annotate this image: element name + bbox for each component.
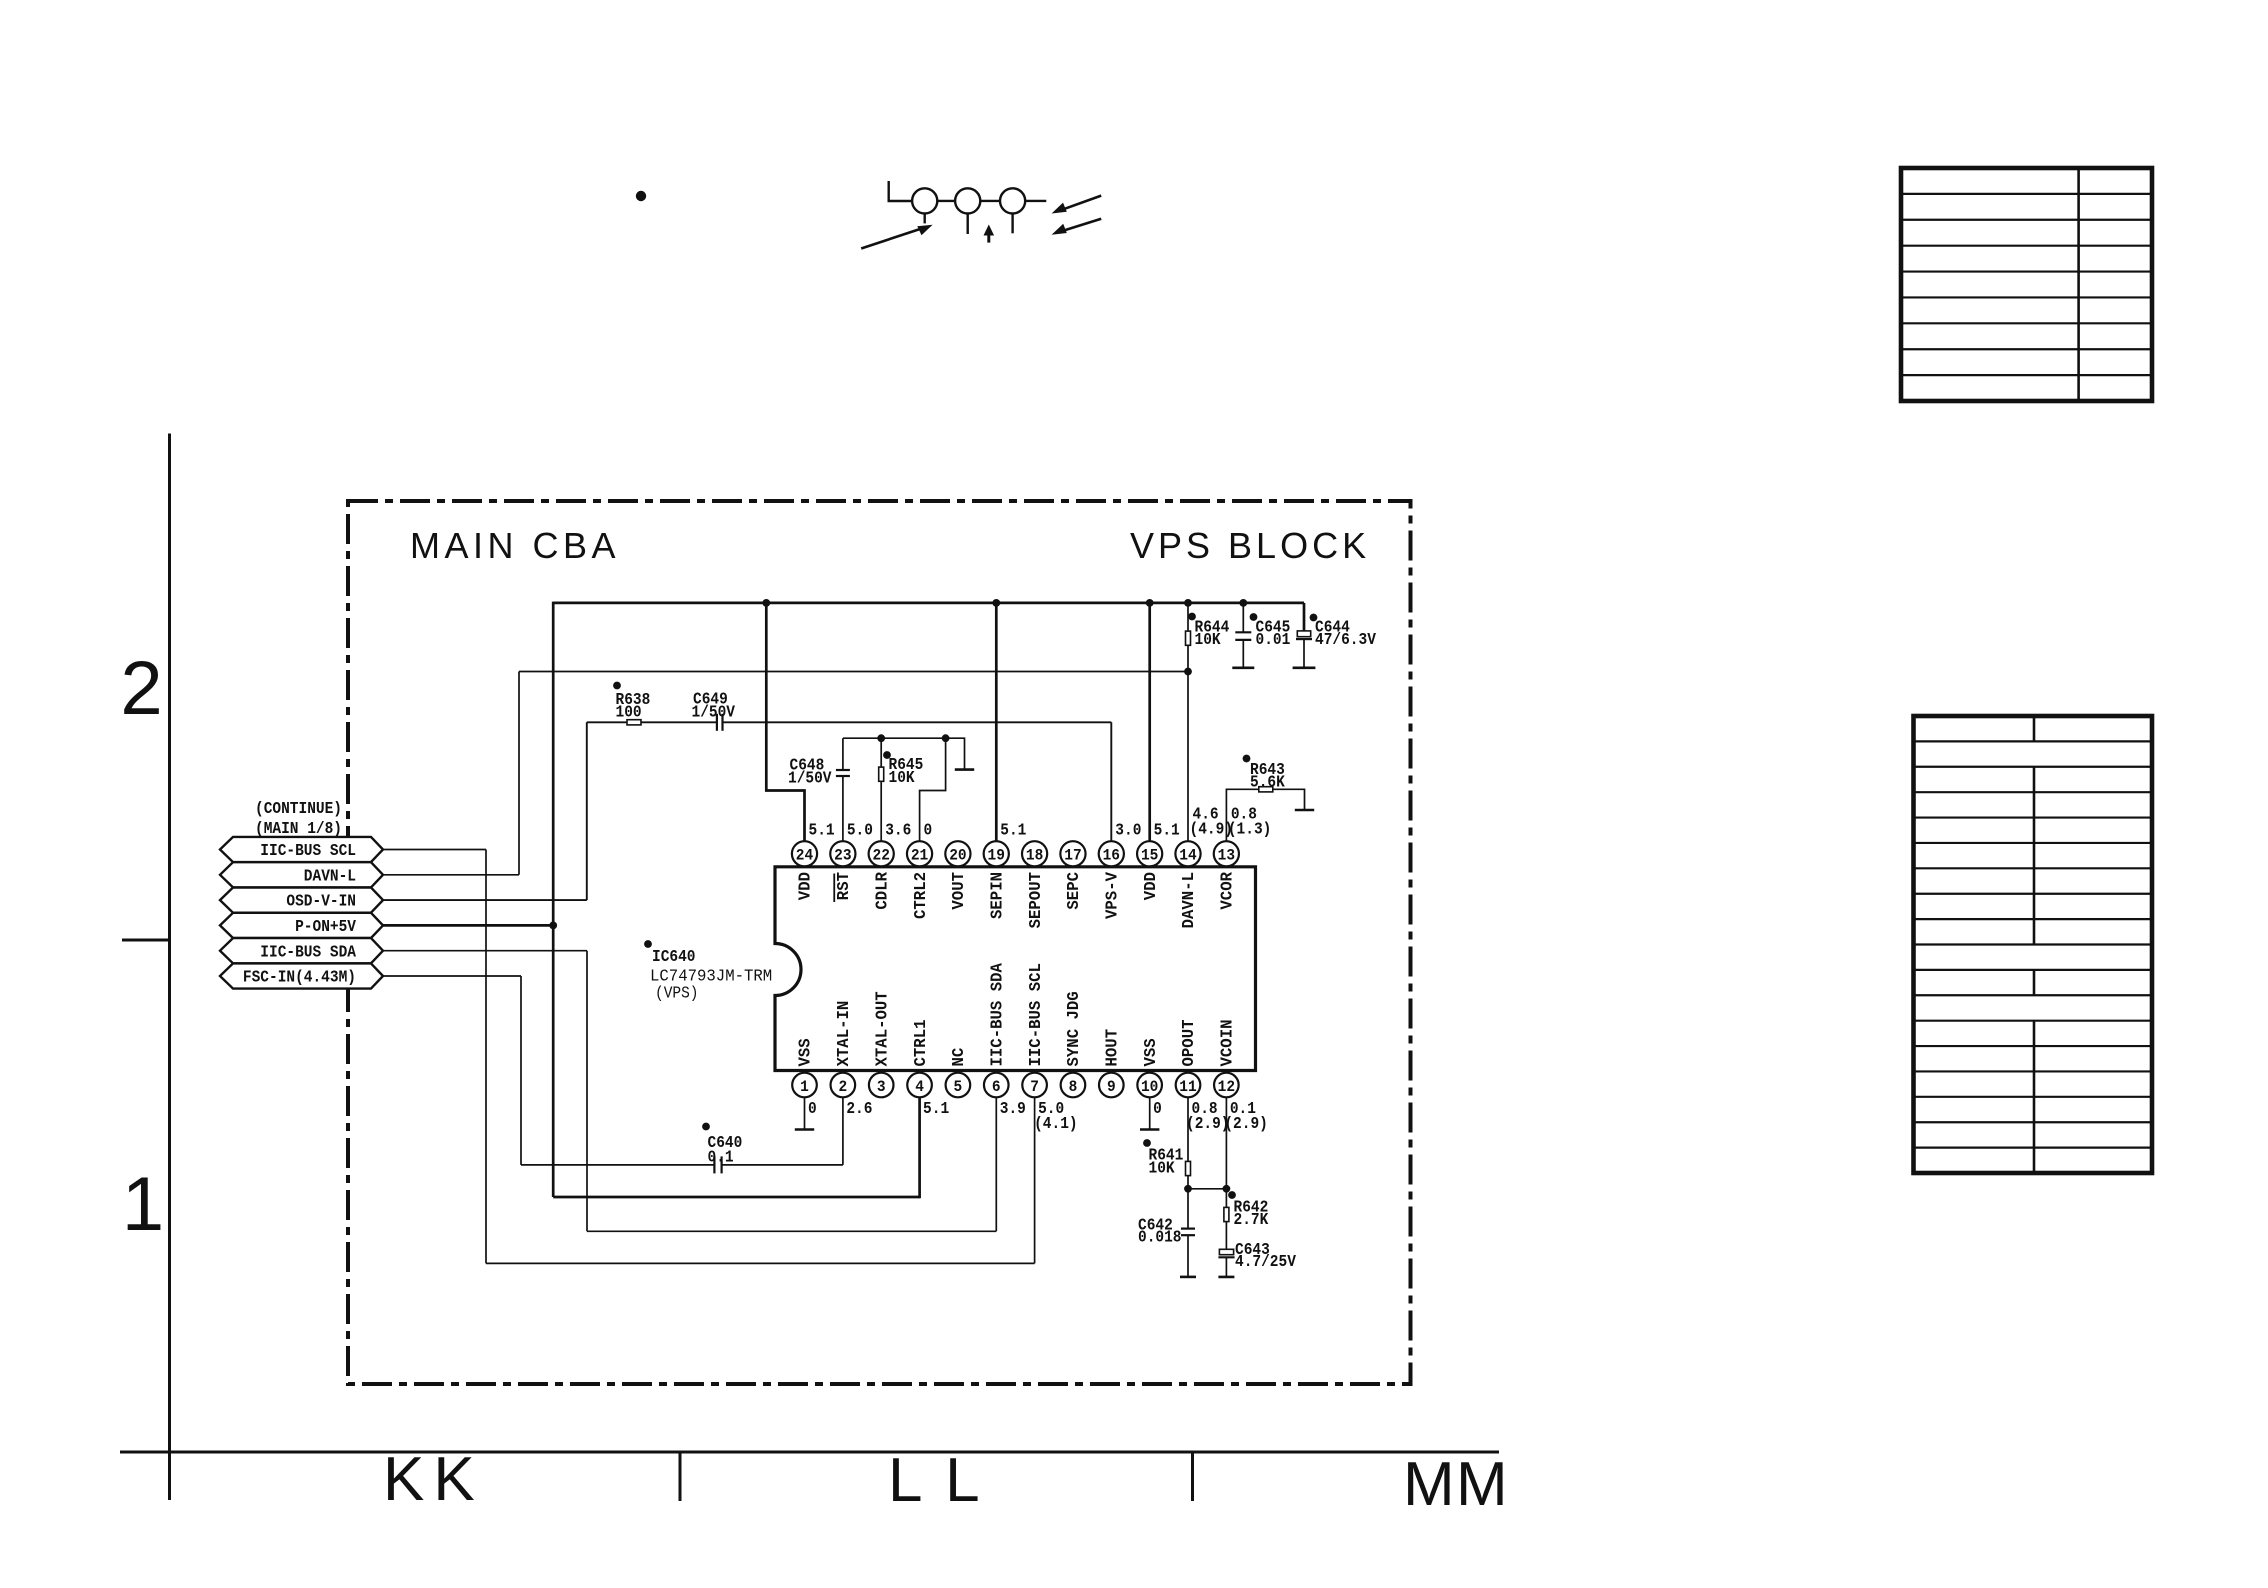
wire C649 to pin 16 corner (723, 721, 1112, 723)
svg-text:KK: KK (383, 1445, 484, 1514)
wire pin 7 vertical (1034, 1085, 1036, 1263)
marker dot R645 (883, 751, 891, 759)
ground bar pin 10 (1140, 1128, 1159, 1131)
wire C644 bottom (1303, 639, 1305, 668)
svg-text:6: 6 (992, 1078, 1001, 1096)
mini diagram circle 1 (912, 188, 937, 213)
wire IIC-BUS SDA flag to vertical (381, 950, 587, 952)
svg-text:5.1: 5.1 (1154, 822, 1180, 840)
svg-text:23: 23 (834, 847, 851, 865)
wire C645 top (1242, 603, 1244, 632)
wire VDD top bus (553, 602, 1304, 605)
junction bus/pin24 branch (762, 599, 770, 607)
svg-text:1/50V: 1/50V (692, 704, 736, 722)
ground bar right of R645 node line (955, 768, 974, 771)
wire IIC-BUS SCL horizontal to pin 7 (486, 1262, 1035, 1264)
svg-text:0.1: 0.1 (708, 1149, 734, 1167)
wire pin 4 vertical (918, 1085, 921, 1198)
svg-text:11: 11 (1179, 1078, 1196, 1096)
svg-text:4: 4 (915, 1078, 924, 1096)
ground bar below C642 (1180, 1276, 1196, 1279)
wire P-ON+5V vertical (552, 602, 555, 1197)
wire FSC-IN to C640 (521, 1164, 714, 1166)
junction C648 line / pin21 branch (942, 734, 950, 742)
svg-text:VPS-V: VPS-V (1104, 872, 1122, 919)
pin 12 (1225, 1071, 1227, 1086)
svg-text:0.01: 0.01 (1256, 631, 1291, 649)
pin 7 (1034, 1071, 1036, 1086)
svg-text:SYNC JDG: SYNC JDG (1065, 991, 1083, 1066)
svg-text:IIC-BUS SDA: IIC-BUS SDA (260, 943, 356, 961)
svg-text:CTRL2: CTRL2 (912, 872, 930, 919)
junction C648 line / R645 (877, 734, 885, 742)
marker dot R644 (1188, 613, 1196, 621)
pin 17 (1072, 854, 1074, 867)
stub below circle 3 (1011, 214, 1013, 233)
svg-text:VPS BLOCK: VPS BLOCK (1130, 525, 1370, 566)
wire FSC-IN vertical down (520, 976, 522, 1165)
wire node to pin 21 jog (920, 738, 946, 844)
svg-text:10K: 10K (1149, 1160, 1175, 1178)
svg-text:VOUT: VOUT (950, 872, 968, 910)
svg-text:CDLR: CDLR (873, 872, 891, 910)
signal flag P-ON+5V (220, 913, 383, 938)
junction pin12/R642 (1223, 1185, 1231, 1193)
wire pin 11 to R641 (1187, 1085, 1189, 1161)
sheet left border line (168, 434, 171, 1501)
pin 22 (880, 854, 882, 867)
wire IIC-BUS SDA vertical down (586, 951, 588, 1232)
pin 10 (1149, 1071, 1151, 1086)
svg-text:IIC-BUS SDA: IIC-BUS SDA (988, 963, 1006, 1067)
svg-text:(4.9): (4.9) (1190, 821, 1234, 839)
overline on RST (833, 874, 835, 903)
capacitor C643 (electrolytic) (1219, 1249, 1233, 1254)
signal flag DAVN-L (220, 862, 383, 887)
svg-text:VDD: VDD (797, 872, 815, 900)
wire node line C648 to ground corner (843, 738, 965, 769)
svg-text:VSS: VSS (797, 1038, 815, 1066)
pin 20 (957, 854, 959, 867)
pin 15 (1149, 854, 1151, 867)
wire bus to pin 19 SEPIN (995, 603, 998, 844)
svg-text:DAVN-L: DAVN-L (304, 867, 356, 885)
wire junction to C642 (1187, 1189, 1189, 1229)
svg-text:1: 1 (800, 1078, 809, 1096)
svg-text:DAVN-L: DAVN-L (1180, 872, 1198, 928)
resistor R643 (1259, 787, 1273, 792)
svg-text:VDD: VDD (1142, 872, 1160, 900)
pin 21 (919, 854, 921, 867)
bullet marker (636, 191, 646, 201)
junction bus/R644 (1184, 599, 1192, 607)
svg-text:5.0: 5.0 (847, 822, 873, 840)
svg-text:HOUT: HOUT (1104, 1029, 1122, 1067)
svg-text:OSD-V-IN: OSD-V-IN (286, 893, 356, 911)
op IC640 body (775, 867, 1256, 1071)
pin 16 (1110, 854, 1112, 867)
wire pin 10 to ground (1149, 1085, 1151, 1130)
pin 9 (1110, 1071, 1112, 1086)
ground bar pin 1 (795, 1128, 814, 1131)
wire pin 16 vertical (1110, 722, 1112, 844)
ground bar below C644 (1293, 666, 1316, 669)
resistor R645 (879, 767, 884, 781)
svg-text:1: 1 (122, 1162, 164, 1247)
marker dot R641 (1143, 1139, 1151, 1147)
svg-text:IC640: IC640 (652, 948, 696, 966)
svg-text:NC: NC (950, 1047, 968, 1066)
marker dot C644 (1310, 614, 1318, 622)
wire C640 to pin 2 (722, 1164, 843, 1166)
svg-text:7: 7 (1030, 1078, 1039, 1096)
signal flag IIC-BUS SDA (220, 938, 383, 963)
marker dot R642 (1228, 1191, 1236, 1199)
wire OSD-V-IN flag to vertical (381, 899, 587, 901)
wire P-ON+5V flag to vertical (381, 924, 555, 927)
svg-text:13: 13 (1218, 847, 1235, 865)
wire pin 13 up and right to R643 (1226, 789, 1259, 844)
marker dot C640 (702, 1123, 710, 1131)
svg-text:3.9: 3.9 (1000, 1100, 1026, 1118)
wire R644 bottom to DAVN junction (1187, 645, 1189, 672)
svg-text:OPOUT: OPOUT (1180, 1019, 1198, 1066)
mini diagram L wire (889, 181, 912, 201)
svg-text:8: 8 (1069, 1078, 1078, 1096)
pin 13 (1225, 854, 1227, 867)
capacitor C644 (electrolytic) (1297, 631, 1310, 637)
pin 5 (957, 1071, 959, 1086)
svg-text:(1.3): (1.3) (1228, 821, 1272, 839)
svg-text:19: 19 (988, 847, 1005, 865)
svg-text:5: 5 (954, 1078, 963, 1096)
svg-text:CTRL1: CTRL1 (912, 1019, 930, 1066)
svg-text:47/6.3V: 47/6.3V (1315, 631, 1376, 649)
resistor R644 (1186, 631, 1191, 645)
svg-text:18: 18 (1026, 847, 1043, 865)
svg-text:20: 20 (949, 847, 966, 865)
wire pin 2 vertical (842, 1085, 844, 1165)
row tick between 2 and 1 (122, 939, 170, 942)
svg-text:MAIN CBA: MAIN CBA (410, 525, 620, 566)
svg-text:100: 100 (616, 704, 642, 722)
signal flag OSD-V-IN (220, 888, 383, 913)
svg-text:LC74793JM-TRM: LC74793JM-TRM (650, 968, 772, 986)
svg-text:22: 22 (873, 847, 890, 865)
pin 2 (842, 1071, 844, 1086)
signal flag FSC-IN(4.43M) (220, 963, 383, 988)
svg-text:3: 3 (877, 1078, 886, 1096)
stub below circle 2 (967, 214, 969, 235)
junction R641/C642 (1184, 1185, 1192, 1193)
ground bar below R643 (1295, 809, 1314, 812)
svg-text:10K: 10K (889, 769, 915, 787)
wire pin 14 vertical (1187, 672, 1189, 845)
svg-text:(VPS): (VPS) (655, 985, 699, 1003)
svg-text:VCOR: VCOR (1219, 872, 1237, 910)
signal flag IIC-BUS SCL (220, 837, 383, 862)
svg-text:(MAIN 1/8): (MAIN 1/8) (255, 820, 342, 838)
capacitor C642 (1181, 1227, 1195, 1229)
marker dot C645 (1250, 613, 1258, 621)
wire FSC-IN flag to vertical (381, 975, 521, 977)
svg-text:LL: LL (888, 1446, 1002, 1515)
wire junction horizontal (1188, 1188, 1226, 1190)
wire P-ON+5V to pin 4 CTRL1 (553, 1196, 919, 1199)
svg-text:5.1: 5.1 (1000, 822, 1026, 840)
upper right arrow (1059, 196, 1101, 211)
capacitor C648 (836, 769, 850, 771)
junction bus/pin15 (1146, 599, 1154, 607)
wire R638 to C649 (640, 721, 717, 723)
capacitor C649 (716, 714, 718, 731)
pin 6 (995, 1071, 997, 1086)
capacitor C640 (713, 1156, 715, 1173)
table lower-right (1914, 716, 2153, 1173)
svg-text:RST: RST (835, 872, 853, 900)
svg-text:12: 12 (1218, 1078, 1235, 1096)
junction R644/DAVN-L/pin14 (1184, 668, 1192, 676)
wire C645 bottom (1242, 640, 1244, 668)
pin 11 (1187, 1071, 1189, 1086)
svg-text:0: 0 (1153, 1100, 1162, 1118)
wire DAVN-L flag to vertical (381, 874, 519, 876)
wire pin 12 down through junction to R642 (1225, 1085, 1227, 1208)
svg-text:14: 14 (1179, 847, 1197, 865)
wire IIC-BUS SCL vertical down (485, 850, 487, 1264)
axis tick between KK and LL (679, 1452, 682, 1501)
svg-text:24: 24 (796, 847, 814, 865)
svg-text:1/50V: 1/50V (788, 770, 832, 788)
wire bus to pin 15 VDD (1148, 603, 1151, 844)
axis tick between LL and MM (1191, 1452, 1194, 1501)
wire R643 to ground corner (1273, 789, 1305, 810)
wire C642 bottom (1187, 1235, 1189, 1277)
svg-text:5.1: 5.1 (923, 1100, 949, 1118)
svg-text:(CONTINUE): (CONTINUE) (255, 800, 342, 818)
pin 19 (995, 854, 997, 867)
ground bar below C643 (1218, 1276, 1234, 1279)
wire OSD line to R638 (587, 721, 628, 723)
wire DAVN-L vertical up (518, 672, 520, 875)
wire OSD-V-IN vertical up (586, 722, 588, 900)
wire pin 23 to C648 (842, 776, 844, 844)
svg-text:XTAL-IN: XTAL-IN (835, 1001, 853, 1067)
svg-text:0.018: 0.018 (1138, 1229, 1182, 1247)
sheet bottom axis line (120, 1451, 1499, 1454)
svg-text:5.6K: 5.6K (1250, 774, 1285, 792)
pin 4 (919, 1071, 921, 1086)
svg-text:IIC-BUS SCL: IIC-BUS SCL (260, 842, 356, 860)
pin 23 (842, 854, 844, 867)
ground bar below C645 (1232, 666, 1254, 669)
svg-text:IIC-BUS SCL: IIC-BUS SCL (1027, 963, 1045, 1066)
marker dot IC640 (644, 940, 652, 948)
resistor R641 (1186, 1161, 1191, 1175)
svg-text:(2.9): (2.9) (1186, 1115, 1230, 1133)
wire between circles 1-2 (937, 200, 955, 202)
marker dot R643 (1243, 755, 1251, 763)
wire R644 top (1187, 603, 1189, 632)
svg-text:VSS: VSS (1142, 1038, 1160, 1066)
arrow from lower-left (861, 227, 925, 248)
svg-text:2: 2 (839, 1078, 848, 1096)
svg-text:(2.9): (2.9) (1224, 1115, 1268, 1133)
svg-text:5.1: 5.1 (809, 822, 835, 840)
pin 14 (1187, 854, 1189, 867)
wire pin 6 vertical (995, 1085, 997, 1231)
svg-text:0: 0 (924, 822, 933, 840)
small up arrow (987, 231, 990, 243)
mini diagram circle 3 (1000, 188, 1025, 213)
svg-text:SEPOUT: SEPOUT (1027, 872, 1045, 929)
mini diagram circle 2 (955, 188, 980, 213)
svg-text:10: 10 (1141, 1078, 1158, 1096)
svg-text:2.6: 2.6 (846, 1100, 872, 1118)
wire R645 vertical top (880, 738, 882, 767)
resistor R642 (1224, 1207, 1229, 1221)
svg-text:SEPC: SEPC (1065, 872, 1083, 910)
wire right of circle 3 (1025, 200, 1046, 202)
svg-text:16: 16 (1103, 847, 1120, 865)
junction P-ON+5V flag wire (549, 922, 557, 930)
wire R645 to pin 22 (880, 782, 882, 845)
svg-text:2.7K: 2.7K (1234, 1211, 1269, 1229)
svg-text:SEPIN: SEPIN (988, 872, 1006, 919)
svg-text:4.7/25V: 4.7/25V (1235, 1253, 1296, 1271)
wire bus corner to C644 (1303, 603, 1306, 631)
svg-text:(4.1): (4.1) (1034, 1115, 1078, 1133)
svg-text:MM: MM (1403, 1450, 1509, 1519)
MAIN CBA / VPS BLOCK dash-dot border (348, 501, 1411, 1384)
svg-text:9: 9 (1107, 1078, 1116, 1096)
pin 3 (880, 1071, 882, 1086)
wire bus to pin 24 jog (766, 603, 804, 844)
svg-text:17: 17 (1064, 847, 1081, 865)
wire IIC-BUS SCL flag to vertical (381, 849, 486, 851)
pin 18 (1034, 854, 1036, 867)
capacitor C645 (1235, 631, 1251, 633)
svg-text:VCOIN: VCOIN (1219, 1020, 1237, 1067)
svg-text:10K: 10K (1195, 631, 1221, 649)
svg-text:3.6: 3.6 (885, 822, 911, 840)
pin 8 (1072, 1071, 1074, 1086)
svg-text:21: 21 (911, 847, 928, 865)
table top-right (1901, 168, 2152, 401)
resistor R638 (627, 720, 641, 725)
svg-text:P-ON+5V: P-ON+5V (295, 918, 356, 936)
junction bus/pin19 (992, 599, 1000, 607)
wire R642 to C643 (1225, 1222, 1227, 1250)
marker dot R638 (613, 682, 621, 690)
svg-text:XTAL-OUT: XTAL-OUT (873, 991, 891, 1066)
svg-text:2: 2 (120, 646, 162, 731)
svg-text:3.0: 3.0 (1115, 822, 1141, 840)
pin 24 (804, 854, 806, 867)
wire C648 top to node line (842, 738, 844, 770)
pin 1 (804, 1071, 806, 1086)
stub below circle 1 (924, 214, 926, 224)
junction bus/C645 (1239, 599, 1247, 607)
wire pin 1 to ground (804, 1085, 806, 1130)
svg-text:FSC-IN(4.43M): FSC-IN(4.43M) (243, 969, 356, 987)
svg-text:15: 15 (1141, 847, 1158, 865)
wire between circles 2-3 (980, 200, 1000, 202)
wire DAVN-L horizontal to R644/pin14 (519, 671, 1188, 673)
svg-text:0: 0 (808, 1100, 817, 1118)
wire C643 bottom (1225, 1257, 1227, 1277)
lower right arrow (1059, 219, 1101, 232)
wire R641 to junction (1187, 1176, 1189, 1189)
wire IIC-BUS SDA horizontal to pin 6 (587, 1230, 996, 1232)
